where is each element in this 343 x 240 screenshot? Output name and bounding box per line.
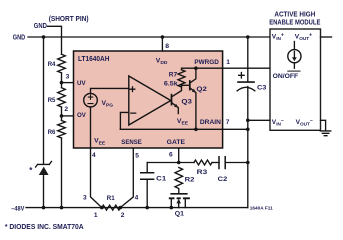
svg-text:R1: R1 [107, 195, 115, 202]
wire VIN- [248, 119, 270, 121]
capacitor C2 [219, 157, 225, 169]
svg-text:(SHORT PIN): (SHORT PIN) [49, 16, 89, 23]
wire R6 to -48V rail [61, 138, 63, 208]
wire -48V rail [26, 207, 248, 209]
svg-text:C2: C2 [218, 176, 228, 183]
svg-text:ON/OFF: ON/OFF [273, 73, 299, 80]
resistor R4 [58, 54, 66, 73]
wire C2 to trunk [225, 162, 248, 164]
svg-text:1: 1 [94, 212, 98, 219]
transistor Q3 [171, 95, 173, 105]
wire VOUT+ stub [321, 36, 332, 38]
svg-text:4: 4 [92, 152, 96, 159]
node pin3 junction [60, 81, 64, 85]
wire VPG bottom to pin 4 [90, 107, 92, 148]
svg-text:7: 7 [226, 119, 230, 126]
wire zener bottom [43, 175, 45, 208]
svg-text:PWRGD: PWRGD [194, 59, 219, 66]
zener diode D1 [36, 161, 52, 167]
svg-text:ACTIVE HIGH: ACTIVE HIGH [274, 11, 315, 18]
svg-text:* DIODES INC. SMAT70A: * DIODES INC. SMAT70A [5, 224, 84, 231]
wire VOUT- to ground [321, 120, 326, 130]
wire zener top [43, 37, 45, 164]
svg-text:UV: UV [77, 80, 86, 87]
wire main GND rail [28, 36, 270, 38]
capacitor C1 [146, 163, 148, 173]
svg-text:GND: GND [34, 23, 47, 30]
svg-text:GND: GND [13, 35, 25, 42]
resistor R5 [58, 88, 66, 107]
ground symbol [320, 131, 330, 136]
wire pin 5 SENSE [120, 148, 133, 208]
pin 8 wire VDD [161, 37, 163, 51]
svg-text:3: 3 [83, 195, 87, 202]
voltage source VPG [84, 93, 98, 107]
svg-text:6: 6 [169, 152, 173, 159]
IC U1 LT1640AH box [74, 51, 223, 148]
svg-text:R7: R7 [169, 72, 178, 79]
svg-text:R6: R6 [48, 129, 56, 136]
resistor R6 [58, 121, 66, 138]
svg-text:–48V: –48V [11, 205, 25, 212]
sense resistor R1 [102, 205, 121, 210]
resistor R2 [175, 168, 183, 194]
wire trunk lower [247, 87, 249, 208]
wire R3 to C2 [212, 162, 219, 164]
svg-text:ENABLE MODULE: ENABLE MODULE [269, 20, 320, 27]
wire short-pin stub [48, 26, 62, 54]
wire pin 4 VEE [91, 148, 102, 208]
svg-text:C3: C3 [257, 84, 267, 91]
wire R5-R6 [61, 107, 63, 121]
wire pin 6 GATE [178, 148, 180, 163]
svg-text:R4: R4 [48, 61, 56, 68]
wire plus input from VPG [91, 88, 129, 93]
wire pin 3 UV [62, 82, 75, 84]
svg-text:1640A F11: 1640A F11 [250, 205, 273, 211]
svg-text:2: 2 [121, 212, 125, 219]
resistor R7 [178, 70, 185, 87]
svg-text:OV: OV [77, 112, 86, 119]
svg-text:Q3: Q3 [181, 99, 192, 106]
resistor R3 [194, 160, 212, 165]
wire PWRGD line [182, 68, 295, 70]
svg-text:5: 5 [135, 152, 139, 159]
wire drain line [120, 128, 247, 130]
svg-text:GATE: GATE [167, 139, 186, 146]
wire pin 2 OV [62, 115, 75, 117]
capacitor C3 [238, 81, 254, 83]
svg-text:SENSE: SENSE [121, 139, 142, 146]
mosfet Q1 [171, 193, 187, 195]
current source [293, 42, 295, 50]
svg-text:4: 4 [135, 195, 139, 202]
wire trunk upper (GND to C3) [247, 37, 249, 81]
module box [270, 29, 321, 130]
svg-text:1: 1 [226, 59, 230, 66]
svg-text:8: 8 [165, 43, 169, 50]
wire R4-R5 [61, 73, 63, 88]
wire gate node line [147, 162, 194, 164]
transistor Q2 [189, 81, 191, 90]
svg-text:6.5k: 6.5k [164, 81, 178, 88]
svg-text:Q2: Q2 [196, 86, 207, 93]
svg-text:R2: R2 [185, 176, 195, 183]
node pin2 junction [60, 114, 64, 118]
svg-text:DRAIN: DRAIN [200, 119, 221, 126]
svg-text:3: 3 [66, 74, 70, 81]
svg-text:R3: R3 [197, 169, 208, 176]
svg-text:2: 2 [64, 106, 68, 113]
svg-text:Q1: Q1 [175, 210, 185, 217]
svg-text:LT1640AH: LT1640AH [78, 56, 110, 63]
op-amp U1a [129, 76, 171, 125]
wire minus input feedback [120, 112, 128, 129]
svg-text:C1: C1 [156, 175, 166, 182]
svg-text:R5: R5 [48, 97, 56, 104]
